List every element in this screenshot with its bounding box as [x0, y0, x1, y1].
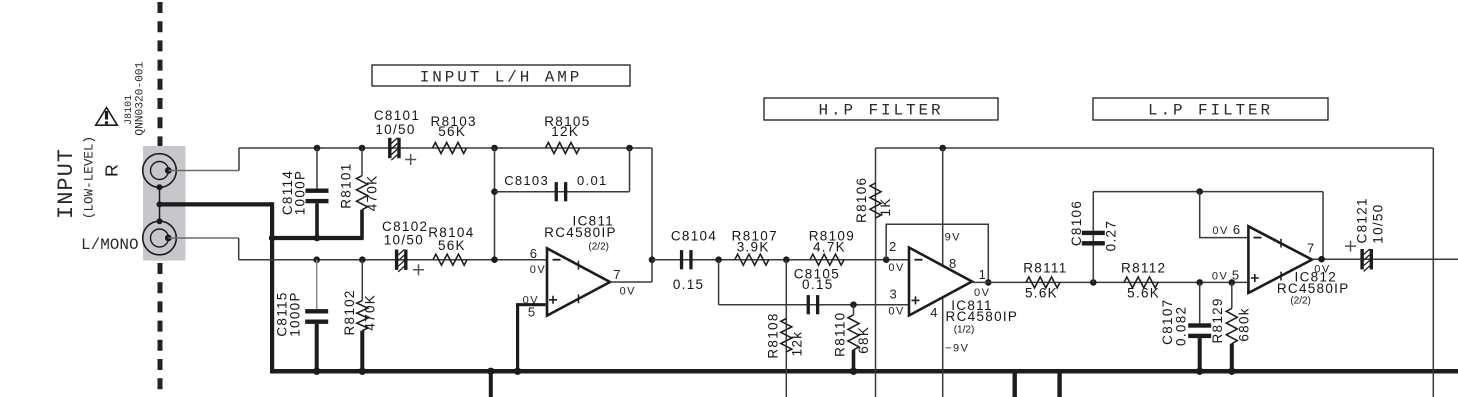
wire C8106 top row [1093, 191, 1323, 193]
resistor R8107 zigzag [735, 254, 769, 265]
resistor R8129 bottom lead [1230, 344, 1234, 372]
jack L/MONO tip contact [165, 235, 172, 242]
wire ground drop (vertical x=272) [270, 202, 274, 371]
wire pin6 drop and row [1200, 192, 1249, 238]
junction jack R sleeve [157, 184, 163, 190]
capacitor C8114 bottom lead [315, 203, 319, 238]
svg-text:−9V: −9V [945, 342, 969, 354]
svg-text:0.15: 0.15 [673, 277, 704, 292]
svg-text:R8108: R8108 [766, 312, 781, 358]
node 9V rail / supply drop [939, 145, 946, 152]
junction ground/C8114 branch [269, 235, 276, 242]
op-amp IC811(2/2) tick top [578, 261, 580, 270]
svg-text:7: 7 [613, 267, 622, 282]
resistor R8101 top lead [361, 148, 363, 176]
resistor R8102 bottom lead [360, 331, 364, 372]
capacitor C8115 top lead [316, 260, 318, 309]
svg-text:3: 3 [890, 287, 899, 302]
wire pin3 row [719, 304, 909, 306]
title box H.P FILTER [764, 98, 998, 120]
svg-text:0V: 0V [530, 264, 546, 276]
node C8104/R8107/C8105 [715, 256, 722, 263]
node pin5/R8129 [1229, 279, 1236, 286]
node pin7 output / feedback [1318, 256, 1325, 263]
op-amp IC811 (1/2) [909, 248, 972, 316]
ground bus (bottom) [270, 369, 1458, 374]
wire C8104 node drop [718, 260, 720, 305]
svg-text:0.082: 0.082 [1173, 306, 1188, 346]
svg-text:12K: 12K [551, 124, 579, 139]
dashed chassis boundary line (top) [158, 2, 163, 146]
node L-line/R8102 [359, 256, 366, 263]
svg-text:C8103: C8103 [504, 173, 549, 188]
capacitor C8121 (electrolytic) [1360, 249, 1363, 269]
wire step down L [238, 238, 240, 260]
junction pin5-0V bus [514, 368, 521, 375]
svg-text:6: 6 [530, 246, 539, 261]
resistor R8104 zigzag [433, 254, 467, 265]
resistor R8110 bottom lead [852, 350, 856, 372]
svg-text:(2/2): (2/2) [1290, 295, 1311, 306]
capacitor C8114 top lead [316, 148, 318, 189]
resistor R8108 line (through bus) [785, 260, 787, 397]
connector body J8101 (gray block) [143, 146, 186, 261]
svg-text:5: 5 [528, 305, 537, 320]
node R8107/R8109/R8108 [783, 256, 790, 263]
capacitor C8106 leads [1092, 192, 1094, 283]
jack R (outer ring) [143, 154, 177, 188]
wire ground stub to R8101/C8114 [270, 236, 363, 240]
wire L-line [239, 259, 548, 261]
op-amp IC811(2/2) tick bottom [578, 294, 580, 303]
wire feedback riser x=652 [651, 148, 653, 282]
node A / C8103 left [491, 188, 498, 195]
svg-text:4: 4 [930, 305, 939, 320]
capacitor C8107 top lead [1199, 282, 1201, 323]
resistor R8108 zigzag [781, 319, 792, 352]
jack L/MONO (inner ring) [151, 229, 169, 247]
svg-text:H.P FILTER: H.P FILTER [818, 102, 943, 120]
resistor R8103 zigzag [433, 143, 467, 154]
svg-text:L.P FILTER: L.P FILTER [1148, 102, 1273, 120]
wire C8103 right riser [629, 148, 631, 192]
node R8112/C8107 [1196, 279, 1203, 286]
wire jack R to riser [168, 170, 239, 172]
junction C8107 bus [1196, 368, 1203, 375]
wire LP feedback riser x=1323 [1322, 192, 1324, 260]
right section border line [1432, 148, 1434, 397]
node R-line/R8101 [359, 145, 366, 152]
junction C8114 ground [314, 235, 321, 242]
svg-text:1: 1 [979, 267, 988, 282]
svg-text:5: 5 [1232, 267, 1241, 282]
warning triangle symbol [96, 108, 118, 126]
jack R (inner ring) [151, 162, 169, 180]
junction R8110 bus [850, 368, 857, 375]
svg-text:0V: 0V [620, 286, 636, 298]
resistor R8101 bottom lead [360, 210, 364, 240]
node summing (pin6 input) [491, 256, 498, 263]
svg-text:470K: 470K [363, 294, 378, 331]
op-amp IC811(1/2) plus mark [912, 296, 920, 304]
wire R-line (top row) [239, 147, 652, 149]
svg-text:0.01: 0.01 [577, 173, 608, 188]
svg-text:68K: 68K [856, 326, 871, 354]
wire HP input row [652, 259, 909, 261]
svg-text:10/50: 10/50 [384, 233, 424, 248]
bus stub down x=1014.7 [1013, 371, 1017, 397]
svg-text:3.9K: 3.9K [737, 240, 770, 255]
bus stub down x=1059.6 [1057, 371, 1061, 397]
capacitor C8114 [306, 189, 329, 193]
node A (R8103/R8105/feedback) [491, 145, 498, 152]
junction R8102 bus [359, 368, 366, 375]
capacitor C8103 [555, 182, 558, 201]
svg-text:1K: 1K [878, 197, 893, 216]
svg-text:0V: 0V [974, 287, 990, 299]
resistor R8109 zigzag [810, 254, 844, 265]
resistor R8106 line (full drop) [875, 148, 877, 397]
svg-text:0V: 0V [1314, 264, 1330, 276]
node R-line/C8114 [314, 145, 321, 152]
svg-text:R8111: R8111 [1023, 261, 1067, 276]
svg-text:6: 6 [1233, 222, 1242, 237]
resistor R8102 top lead [361, 260, 363, 301]
svg-text:R8106: R8106 [854, 177, 869, 223]
wire jack L to step [168, 237, 238, 239]
resistor R8111 zigzag [1026, 277, 1060, 288]
op-amp IC812 tick bottom [1280, 272, 1282, 281]
junction jack L sleeve [157, 218, 163, 224]
node pin1 output / feedback [985, 279, 992, 286]
svg-text:C8104: C8104 [671, 228, 717, 243]
wire C8103 row [495, 191, 630, 193]
resistor R8105 zigzag [546, 143, 580, 154]
svg-text:R: R [102, 164, 122, 177]
svg-text:INPUT L/H AMP: INPUT L/H AMP [420, 69, 583, 87]
wire jack sleeve link [159, 187, 161, 221]
resistor R8129 zigzag [1226, 308, 1237, 343]
resistor R8106 zigzag [870, 183, 881, 218]
wire pin5 0V (horizontal) [518, 303, 546, 306]
wire 9V top rail [876, 147, 1434, 149]
svg-text:1000P: 1000P [292, 170, 307, 216]
junction sleeve mid [157, 201, 163, 207]
capacitor C8115 bottom lead [315, 324, 319, 371]
wire riser R [238, 148, 240, 171]
svg-text:0.27: 0.27 [1103, 220, 1118, 251]
bus stub down x=490.8 [489, 371, 493, 397]
node output stage1 [649, 256, 656, 263]
svg-text:R8102: R8102 [342, 289, 357, 335]
node R8105 right / C8103 branch [626, 145, 633, 152]
svg-text:QNN0320-001: QNN0320-001 [134, 61, 146, 135]
svg-text:(1/2): (1/2) [954, 325, 975, 336]
svg-text:56K: 56K [438, 238, 466, 253]
svg-text:680k: 680k [1236, 307, 1251, 341]
wire supply drop x=942.7 (pin8/pin4) [942, 148, 944, 397]
resistor R8102 zigzag [357, 301, 368, 331]
resistor R8101 zigzag [357, 176, 368, 210]
op-amp IC811 (2/2) [547, 248, 610, 315]
svg-text:L/MONO: L/MONO [81, 236, 139, 254]
svg-text:12k: 12k [789, 331, 804, 357]
svg-text:INPUT: INPUT [54, 148, 79, 219]
svg-text:10/50: 10/50 [1371, 203, 1386, 243]
wire ground from jacks (horizontal) [160, 202, 273, 206]
wire op-amp1 output [610, 281, 652, 283]
svg-text:C8106: C8106 [1069, 200, 1084, 246]
wire node A drop [494, 148, 496, 260]
resistor R8112 zigzag [1124, 277, 1158, 288]
capacitor C8107 bottom lead [1198, 338, 1202, 371]
svg-text:(LOW-LEVEL): (LOW-LEVEL) [83, 136, 97, 219]
svg-text:R8112: R8112 [1121, 261, 1166, 276]
junction bus x=490.8 [487, 368, 494, 375]
svg-text:J8101: J8101 [124, 95, 135, 125]
op-amp IC812 tick top [1280, 239, 1282, 248]
wire pin5 0V (vertical) [516, 303, 519, 371]
svg-text:10/50: 10/50 [375, 122, 415, 137]
node R8111/R8112/C8106 [1090, 279, 1097, 286]
svg-text:RC4580IP: RC4580IP [544, 225, 617, 240]
dashed chassis boundary line (bottom) [158, 263, 163, 390]
capacitor C8104 [680, 250, 683, 269]
jack R tip contact [165, 167, 172, 174]
junction C8115 bus [313, 368, 320, 375]
capacitor C8102 (electrolytic) [395, 250, 398, 270]
svg-text:9V: 9V [945, 231, 961, 243]
junction R8129 bus [1228, 368, 1235, 375]
svg-text:0V: 0V [888, 262, 904, 274]
svg-text:0V: 0V [1212, 225, 1228, 237]
svg-text:R8110: R8110 [832, 312, 847, 357]
title box L.P FILTER [1093, 98, 1328, 120]
resistor R8110 top lead [853, 305, 855, 315]
jack L/MONO (outer ring) [143, 221, 177, 255]
svg-text:2: 2 [889, 239, 898, 254]
svg-text:(2/2): (2/2) [588, 241, 609, 252]
capacitor C8105 [807, 295, 810, 314]
resistor R8110 zigzag [848, 315, 859, 350]
title box INPUT L/H AMP [372, 65, 630, 86]
svg-text:RC4580IP: RC4580IP [946, 309, 1019, 324]
capacitor C8106 [1082, 231, 1105, 235]
svg-text:7: 7 [1307, 240, 1316, 255]
svg-text:C8121: C8121 [1354, 197, 1369, 243]
node pin2 / feedback [883, 256, 890, 263]
op-amp IC812 minus mark [1254, 237, 1262, 239]
node C8106 row / pin6 drop [1196, 188, 1203, 195]
op-amp IC812 (2/2) [1248, 226, 1312, 293]
op-amp IC811(1/2) minus mark [915, 259, 923, 261]
capacitor C8115 [305, 309, 328, 313]
op-amp IC811(2/2) plus mark [549, 296, 557, 304]
svg-text:4.7K: 4.7K [813, 240, 846, 255]
wire LP input row (pin1 to pin5) [972, 281, 1248, 283]
svg-text:0V: 0V [1212, 270, 1228, 282]
wire LP output row [1312, 258, 1458, 260]
svg-text:0V: 0V [888, 305, 904, 317]
node L-line/C8115 [313, 256, 320, 263]
wire feedback up-over (pin2 to pin1) [886, 224, 988, 282]
capacitor C8101 (electrolytic) [388, 138, 391, 158]
svg-text:56K: 56K [438, 124, 466, 139]
svg-text:R8129: R8129 [1210, 297, 1225, 343]
svg-text:5.6K: 5.6K [1025, 286, 1058, 301]
svg-text:R8101: R8101 [338, 162, 353, 208]
node C8105/R8110 [850, 301, 857, 308]
op-amp IC811(2/2) minus mark [553, 259, 561, 261]
svg-text:0.15: 0.15 [802, 277, 833, 292]
op-amp IC812 plus mark [1251, 274, 1259, 282]
resistor R8129 top lead [1231, 282, 1233, 308]
capacitor C8107 [1188, 323, 1211, 327]
svg-text:1000P: 1000P [288, 291, 303, 337]
svg-text:RC4580IP: RC4580IP [1277, 281, 1350, 296]
